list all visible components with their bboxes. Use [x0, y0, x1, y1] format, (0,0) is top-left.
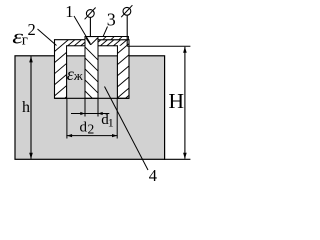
dimension d2 line [66, 135, 117, 137]
svg-text:4: 4 [149, 166, 157, 183]
inner rod electrode 1 [85, 37, 98, 99]
outer electrode cup (cap + two walls), white with border [55, 40, 130, 99]
insulator plate 3 on top [85, 37, 128, 40]
hatch of outer cup [55, 0, 133, 174]
lead wire right [126, 15, 128, 46]
dimension H line [184, 47, 186, 159]
svg-text:H: H [169, 89, 185, 113]
svg-text:2: 2 [28, 20, 36, 39]
svg-text:2: 2 [88, 122, 95, 137]
extra hatch of cap band [55, 0, 133, 124]
extension line bottom (to H) [164, 158, 190, 160]
svg-text:ж: ж [73, 68, 84, 83]
svg-text:h: h [22, 99, 30, 116]
svg-text:3: 3 [107, 10, 116, 30]
extension line top (to H) [127, 45, 190, 47]
terminal circle of cup (right) [123, 7, 131, 15]
tank 4 (liquid, gray) [15, 56, 165, 160]
dimension h line [30, 56, 32, 158]
bottom edge of electrode assembly [55, 97, 130, 99]
svg-text:d: d [80, 120, 88, 136]
gas space inside right gap (white above liquid level) [99, 46, 117, 55]
extension lines for d2 [66, 99, 68, 139]
lead wire left [89, 17, 91, 36]
V weld marks in rod head [86, 38, 91, 45]
terminal circle of rod (left) [86, 10, 94, 18]
svg-text:1: 1 [65, 2, 73, 21]
hatch of inner rod [85, 47, 99, 105]
svg-text:г: г [22, 33, 28, 49]
hatch of insulator plate [103, 37, 106, 40]
dimension d1 line [71, 113, 109, 115]
gas space inside left gap (white above liquid level) [67, 46, 84, 55]
extension lines for d1 [84, 99, 86, 117]
svg-text:1: 1 [108, 116, 114, 130]
